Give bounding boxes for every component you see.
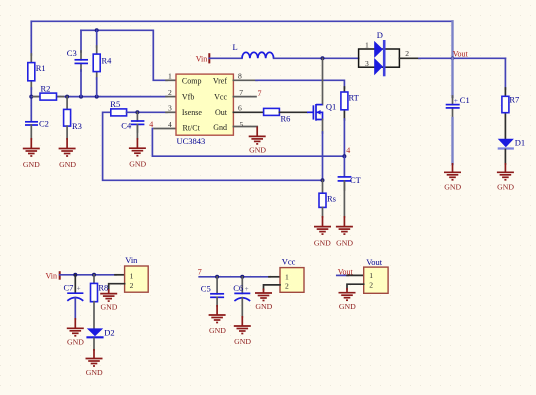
wire R3 to ground: [66, 126, 68, 139]
wire R4 bottom to Vfb net: [96, 78, 98, 97]
svg-text:Rt/Ct: Rt/Ct: [183, 124, 201, 133]
node junction R3 top: [65, 95, 69, 99]
pin 1 stub (Vout conn): [347, 274, 364, 276]
inductor L: [242, 52, 274, 58]
svg-text:2: 2: [130, 281, 134, 290]
resistor R8 pins: [93, 275, 95, 284]
resistor Rs: [319, 193, 326, 207]
svg-text:D1: D1: [515, 138, 525, 148]
svg-text:8: 8: [238, 72, 242, 81]
wire D cathode to Vout: [399, 57, 420, 59]
svg-text:GND: GND: [86, 368, 103, 377]
capacitor C6 pins: [241, 277, 243, 294]
svg-text:5: 5: [240, 120, 244, 129]
wire R4 top: [96, 30, 98, 47]
wire Vout stub: [337, 274, 348, 276]
ground C1: [444, 172, 461, 180]
ground C6: [234, 326, 251, 334]
svg-text:Vref: Vref: [213, 77, 228, 86]
svg-text:GND: GND: [339, 302, 356, 311]
connector Vcc: [280, 268, 304, 293]
svg-text:GND: GND: [23, 160, 40, 169]
node junction source/Rs: [321, 178, 325, 182]
ground C4: [129, 148, 146, 156]
wire R1 bottom to C2: [30, 88, 32, 122]
svg-text:1: 1: [369, 271, 373, 280]
svg-text:R6: R6: [281, 114, 291, 124]
wire vertical Vout feedback drop: [451, 21, 453, 58]
wire Rs to ground: [322, 207, 324, 217]
svg-text:1: 1: [130, 271, 134, 280]
resistor R2 pins: [33, 96, 40, 98]
node junction C4 top: [135, 110, 139, 114]
svg-text:Vin: Vin: [46, 272, 58, 281]
capacitor C4: [131, 121, 145, 124]
ground Vcc conn pin2: [255, 293, 272, 301]
wire R5 right to pin 3: [127, 111, 167, 113]
capacitor C7 (polarized): [67, 293, 83, 301]
svg-text:Vfb: Vfb: [182, 93, 194, 102]
svg-text:C3: C3: [67, 48, 77, 58]
svg-text:1: 1: [365, 41, 369, 50]
wire Vref to RT: [256, 80, 344, 88]
svg-text:6: 6: [238, 104, 242, 113]
diode D1: [498, 139, 514, 149]
resistor R7 pins: [504, 88, 506, 96]
svg-text:C6: C6: [233, 283, 243, 293]
diode D2: [86, 328, 103, 337]
wire C6 to ground: [241, 298, 243, 317]
node junction drain tap: [321, 56, 325, 60]
wire C1 column: [451, 58, 453, 97]
resistor R5: [111, 109, 127, 116]
svg-text:GND: GND: [255, 302, 272, 311]
wire C5 to ground: [216, 297, 218, 306]
wire RT bottom to net4: [343, 119, 345, 156]
svg-text:Isense: Isense: [182, 108, 202, 117]
resistor R6: [264, 108, 280, 115]
svg-text:Comp: Comp: [182, 76, 202, 85]
wire Vout down to R7: [504, 58, 506, 89]
wire Q1 source column to sense node: [322, 120, 324, 134]
pin 7 stub: [233, 96, 256, 98]
capacitor C5: [210, 294, 224, 298]
wire C1 to ground: [451, 118, 453, 164]
wire Rt/Ct net: pin4 down and across to RT/CT: [152, 129, 344, 157]
svg-text:2: 2: [369, 281, 373, 290]
ground pin5: [249, 136, 266, 144]
node junction C1/Vout: [451, 57, 455, 61]
connector Vin: [125, 266, 149, 292]
wire R3 top: [66, 97, 68, 110]
svg-text:GND: GND: [67, 338, 84, 347]
pin 2 wire (Vin conn) to ground: [109, 284, 125, 290]
wire C4 to ground: [136, 124, 138, 139]
wire C3 bottom to Vfb net: [80, 70, 82, 97]
wire feedback top: Vout node up to R1 top: [31, 20, 452, 22]
svg-text:C7: C7: [64, 283, 74, 293]
resistor R7: [502, 96, 509, 112]
ground C7: [67, 328, 84, 336]
svg-text:GND: GND: [59, 160, 76, 169]
svg-text:D: D: [377, 30, 383, 40]
node junction C5: [215, 275, 219, 279]
ground C2: [23, 149, 40, 157]
svg-text:GND: GND: [209, 326, 226, 335]
resistor R1 pins: [30, 54, 32, 63]
svg-text:3: 3: [365, 59, 369, 68]
wire Vcc net: [199, 276, 270, 278]
ground CT: [336, 227, 353, 235]
diode D elements: [374, 40, 384, 76]
wire Vfb net horizontal: [31, 96, 167, 98]
svg-text:+: +: [245, 285, 249, 293]
resistor R3: [64, 109, 71, 126]
svg-text:Out: Out: [215, 108, 228, 117]
wire Isense sense loop: R5 left down and across to Rs: [103, 112, 323, 180]
capacitor C4 pins: [136, 112, 138, 121]
svg-text:Q1: Q1: [326, 102, 336, 112]
wire C3 top drop: [80, 30, 82, 52]
wire R1 top column: [30, 21, 32, 55]
svg-text:Vcc: Vcc: [282, 257, 296, 267]
wire C2 to ground: [30, 125, 32, 139]
capacitor CT: [338, 177, 352, 181]
svg-text:C4: C4: [121, 120, 132, 130]
ground Vout conn pin2: [339, 293, 356, 301]
ground D1: [497, 172, 514, 180]
svg-text:7: 7: [198, 268, 202, 277]
svg-text:UC3843: UC3843: [177, 136, 206, 146]
pin 1 stub (Vcc conn): [269, 276, 280, 278]
svg-text:GND: GND: [101, 303, 118, 312]
node junction C7: [73, 273, 77, 277]
svg-text:R3: R3: [72, 121, 82, 131]
wire comp net: C3 top across to pin1: [81, 30, 167, 80]
svg-text:C2: C2: [39, 119, 49, 129]
svg-text:GND: GND: [234, 337, 251, 346]
svg-text:1: 1: [168, 72, 172, 81]
svg-text:GND: GND: [249, 145, 266, 154]
svg-text:+: +: [77, 285, 81, 293]
node junction R8: [92, 273, 96, 277]
capacitor C2: [25, 122, 38, 125]
resistor R2: [40, 93, 57, 100]
ground Rs: [314, 227, 331, 235]
resistor R4 pins: [96, 46, 98, 54]
svg-text:GND: GND: [336, 239, 353, 248]
capacitor C3: [75, 60, 89, 64]
wire R8 to D2: [93, 302, 95, 329]
node junction RT/CT: [342, 154, 346, 158]
diode D dual body: [359, 49, 400, 67]
svg-text:R5: R5: [110, 99, 120, 109]
svg-text:C1: C1: [460, 95, 470, 105]
svg-text:GND: GND: [314, 239, 331, 248]
capacitor C7 pins: [74, 275, 76, 293]
svg-text:2: 2: [285, 282, 289, 291]
ground C5: [209, 315, 226, 323]
wire drain column: [322, 58, 324, 104]
svg-text:RT: RT: [349, 93, 360, 103]
resistor R4: [93, 54, 100, 72]
svg-text:GND: GND: [497, 183, 514, 192]
svg-text:4: 4: [168, 120, 172, 129]
pin 2 wire (Vout conn) to ground: [347, 284, 364, 289]
wire Vin to connector: [60, 274, 116, 276]
svg-text:4: 4: [149, 120, 153, 129]
svg-text:Vout: Vout: [453, 49, 469, 58]
op-amp U1 UC3843 body: [176, 74, 233, 135]
pin 1 stub (Vin conn): [115, 274, 125, 276]
svg-text:2: 2: [168, 88, 172, 97]
svg-text:GND: GND: [129, 160, 146, 169]
wire L to D anode: [274, 57, 359, 59]
pin 3 stub: [166, 111, 176, 113]
node junction R1/R2/C2: [29, 95, 33, 99]
svg-text:Vin: Vin: [196, 54, 208, 63]
svg-text:CT: CT: [350, 175, 362, 185]
svg-text:+: +: [454, 96, 458, 105]
capacitor C1: [446, 105, 460, 108]
transistor Q1: [307, 104, 323, 121]
pin 2 stub: [166, 96, 176, 98]
svg-text:4: 4: [346, 146, 350, 155]
resistor RT: [341, 92, 348, 110]
wire D2 to ground: [93, 338, 95, 350]
svg-text:L: L: [233, 42, 238, 52]
node junction R4 top: [95, 28, 99, 32]
capacitor C5 pins: [216, 277, 218, 294]
wire D1 to ground: [504, 150, 506, 165]
svg-text:R7: R7: [509, 95, 519, 105]
connector Vout: [364, 267, 388, 293]
capacitor C1 pins: [452, 96, 454, 105]
wire R6 to Q1 gate: [279, 111, 307, 113]
svg-text:R8: R8: [98, 283, 108, 293]
ground Vin conn pin2: [100, 294, 117, 302]
pin 2 wire (Vcc conn) to ground: [264, 285, 281, 290]
ground R3: [59, 149, 76, 157]
svg-text:3: 3: [168, 104, 172, 113]
node junction R4 bottom: [95, 95, 99, 99]
capacitor C6 (polarized): [234, 293, 250, 301]
svg-text:1: 1: [285, 272, 289, 281]
pin 5 stub: [233, 126, 257, 128]
node junction C6: [240, 275, 244, 279]
svg-text:Rs: Rs: [327, 194, 336, 204]
pin 4 stub: [154, 128, 176, 130]
svg-text:Vcc: Vcc: [214, 93, 227, 102]
resistor R1: [28, 63, 35, 81]
wire Vin to L: [209, 57, 242, 59]
wire pin5 to ground: [256, 127, 258, 137]
wire CT to ground: [343, 181, 345, 217]
svg-text:Vin: Vin: [125, 255, 138, 265]
capacitor CT pins: [343, 156, 345, 176]
svg-text:C5: C5: [201, 284, 211, 294]
svg-text:D2: D2: [104, 328, 114, 338]
svg-text:2: 2: [405, 49, 409, 58]
svg-text:R1: R1: [36, 63, 46, 73]
svg-text:R4: R4: [102, 56, 113, 66]
svg-text:R2: R2: [41, 84, 51, 94]
pin 1 stub: [166, 79, 176, 81]
svg-text:7: 7: [258, 89, 262, 98]
wire C7 to ground: [74, 298, 76, 320]
svg-text:Gnd: Gnd: [213, 123, 227, 132]
capacitor C3 pins: [80, 51, 82, 60]
pin 6 wire to R6: [233, 111, 263, 113]
resistor R8: [91, 283, 98, 301]
resistor RT pins: [343, 87, 345, 92]
resistor Rs pins: [322, 180, 324, 193]
pin 8 stub: [233, 79, 257, 81]
svg-text:GND: GND: [444, 183, 461, 192]
node junction C3 bottom: [79, 95, 83, 99]
ground D2: [86, 359, 103, 367]
svg-text:Vout: Vout: [366, 257, 383, 267]
svg-text:7: 7: [239, 88, 243, 97]
